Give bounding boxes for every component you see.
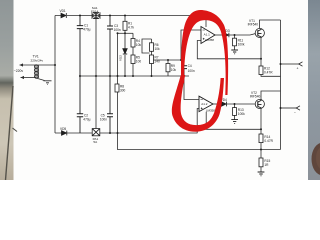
svg-text:VD1: VD1 <box>60 9 66 13</box>
svg-text:VD2: VD2 <box>119 55 123 61</box>
output terminal plus <box>281 62 303 66</box>
transistor VT1 <box>255 28 264 37</box>
svg-text:IRF540: IRF540 <box>248 23 259 27</box>
ground (R13) <box>231 120 238 124</box>
wire x117 vertical <box>117 33 119 133</box>
resistor R8 <box>115 84 119 92</box>
svg-text:100n: 100n <box>114 28 121 32</box>
wire opamp1 plus input feedback <box>197 41 261 59</box>
junction node dots <box>54 15 282 151</box>
wire opamp2 input from divider <box>184 76 199 100</box>
VT1 drain top wire <box>260 20 281 29</box>
red highlight loop top <box>181 10 228 95</box>
capacitor C2 <box>77 76 83 133</box>
diagonal background line in left bar <box>6 86 14 180</box>
capacitor C3 <box>107 16 113 77</box>
svg-text:F01A: F01A <box>91 9 99 13</box>
meter PA1 <box>92 129 100 136</box>
svg-text:A1.2: A1.2 <box>201 102 208 106</box>
ground (transformer) <box>44 81 52 85</box>
svg-text:A1.1: A1.1 <box>204 33 211 37</box>
transistor VT2 <box>255 99 264 108</box>
svg-text:1R: 1R <box>264 163 269 167</box>
svg-text:−: − <box>294 111 296 115</box>
svg-text:10k: 10k <box>171 68 177 72</box>
svg-text:C4: C4 <box>188 64 192 68</box>
svg-text:0.47R: 0.47R <box>264 70 273 74</box>
brown blurred blob bottom-right <box>312 143 320 175</box>
fuse-switch SA1 <box>92 13 100 19</box>
wire opamp2 feedback input <box>197 109 199 134</box>
wire SA1 down to PA1 box <box>95 19 97 129</box>
wire R6 wiper loop <box>142 39 152 53</box>
op-amp A1.1 <box>201 27 215 44</box>
resistor R5 pot <box>131 55 135 76</box>
output terminal minus <box>281 106 301 110</box>
svg-text:10k: 10k <box>136 43 142 47</box>
wire lower-right bottom <box>118 133 281 150</box>
diode VD4 <box>221 102 226 107</box>
wire opamp1 minus input <box>181 30 201 60</box>
diode VD1 <box>61 13 66 18</box>
wire R1 junction row <box>118 32 134 34</box>
resistor R9 <box>166 60 170 76</box>
diode VD3 <box>224 33 229 38</box>
svg-text:LM358: LM358 <box>205 38 215 42</box>
capacitor C5 <box>107 76 113 133</box>
svg-text:100: 100 <box>136 59 142 63</box>
svg-text:0.47R: 0.47R <box>264 139 273 143</box>
bottom rail wire <box>55 132 198 134</box>
capacitor C4 <box>181 60 187 76</box>
wire VD3 to VT1 gate <box>229 34 255 35</box>
wire opamp1 supply <box>205 16 207 28</box>
top rail wire <box>55 15 206 17</box>
wire opamp2 supply <box>205 112 207 130</box>
transformer TV1 <box>20 63 56 80</box>
diode VD5 <box>62 131 67 136</box>
op-amp A1.2 <box>199 96 213 111</box>
svg-text:100n: 100n <box>188 69 195 73</box>
svg-text:IRF540: IRF540 <box>250 95 261 99</box>
svg-text:470µ: 470µ <box>83 117 90 121</box>
wire VT1 source down <box>260 38 262 66</box>
resistor R12 <box>259 66 263 75</box>
mid ground rail wire <box>79 75 189 77</box>
resistor R7 <box>150 55 154 76</box>
resistor R4 <box>131 33 135 55</box>
resistor R13 <box>233 104 237 120</box>
svg-text:300: 300 <box>120 89 126 93</box>
left video-edge bar <box>0 0 17 180</box>
zener VD2 <box>123 33 127 76</box>
svg-text:220v/24v: 220v/24v <box>31 58 44 62</box>
svg-text:LM358: LM358 <box>206 108 216 112</box>
svg-text:100n: 100n <box>100 117 107 121</box>
resistor R14 <box>259 134 263 158</box>
svg-text:100k: 100k <box>238 42 245 46</box>
resistor R11 <box>233 35 237 50</box>
right rail wire <box>280 20 282 150</box>
svg-text:10k: 10k <box>155 47 161 51</box>
wire R12 to VT2 drain detour <box>261 75 281 100</box>
white schematic background <box>0 0 320 180</box>
svg-text:~220v: ~220v <box>14 69 24 73</box>
resistor R15 <box>259 158 263 172</box>
svg-text:VD5: VD5 <box>60 127 66 131</box>
svg-text:100k: 100k <box>238 112 245 116</box>
wire VD4 to VT2 gate <box>226 103 255 105</box>
ground (R15) <box>258 172 265 176</box>
wire opamp1 output <box>215 34 222 36</box>
wire opamp2 output <box>213 103 221 105</box>
left rail wire <box>54 16 56 134</box>
wire divider output row <box>154 59 185 61</box>
red highlight loop bottom <box>172 75 224 132</box>
resistor R1 <box>123 16 127 34</box>
svg-text:+: + <box>297 67 299 71</box>
svg-text:470µ: 470µ <box>83 28 90 32</box>
right video-edge bar <box>308 0 320 180</box>
wire VT2 source down <box>260 109 262 134</box>
resistor R6 <box>150 39 154 55</box>
wire bottom loop to sense junction <box>198 128 262 130</box>
capacitor C1 <box>77 16 83 77</box>
ground (R11) <box>231 50 238 54</box>
svg-text:4.7k: 4.7k <box>128 25 134 29</box>
